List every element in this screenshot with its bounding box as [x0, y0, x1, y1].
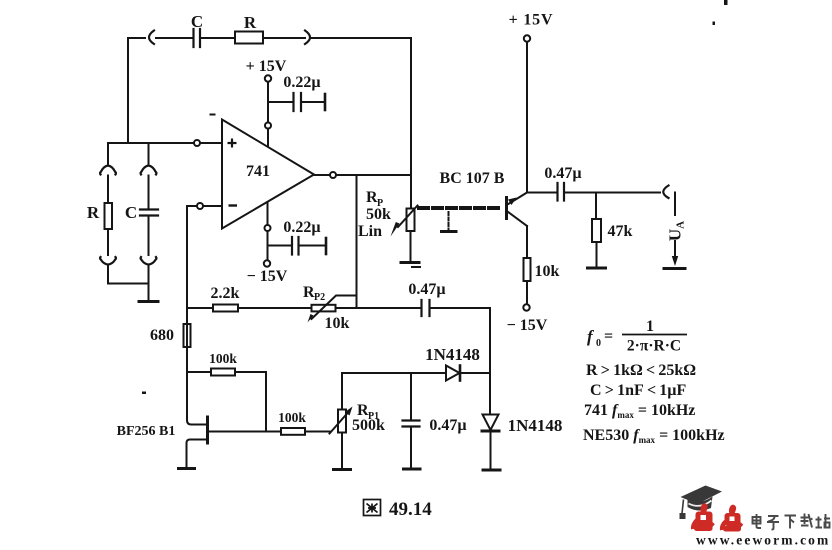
watermark graduation cap — [680, 486, 723, 520]
speck near BF256 — [142, 392, 146, 395]
capacitor 0.47u output — [558, 183, 565, 201]
svg-text:10k: 10k — [535, 263, 560, 280]
ground RP — [401, 261, 419, 264]
wire top feedback left segment — [128, 37, 145, 39]
wire — [490, 432, 492, 468]
ground bar top 0.22u — [324, 94, 327, 110]
ground 0.47u vertical — [404, 468, 421, 471]
svg-text:BF256 B1: BF256 B1 — [117, 424, 176, 439]
svg-text:741 fmax = 10kHz: 741 fmax = 10kHz — [584, 402, 695, 420]
wire — [238, 307, 312, 309]
svg-text:500k: 500k — [352, 417, 385, 434]
svg-text:+ 15V: + 15V — [509, 12, 554, 29]
terminal -15V opamp — [264, 260, 270, 266]
wire — [107, 229, 109, 255]
wire — [299, 245, 324, 247]
svg-text:− 15V: − 15V — [247, 268, 288, 285]
capacitor 0.47u vertical — [410, 373, 412, 420]
mechanical link dashed RP to Q1 — [419, 206, 503, 210]
svg-text:1N4148: 1N4148 — [508, 416, 563, 435]
svg-text:R: R — [87, 203, 100, 222]
wire — [302, 101, 323, 103]
wire op-amp output — [314, 174, 411, 176]
wire — [267, 231, 269, 260]
wire 0.22u bottom branch — [268, 245, 291, 247]
wire — [565, 192, 660, 194]
wire collector to +15V — [526, 42, 528, 193]
diode D2 1N4148 vertical — [483, 415, 499, 431]
svg-text:C: C — [125, 203, 137, 222]
capacitor C (top feedback) — [194, 29, 201, 47]
svg-text:100k: 100k — [278, 410, 306, 425]
node on + input — [194, 140, 200, 146]
wire — [201, 37, 235, 39]
potentiometer RP 50k — [407, 209, 415, 232]
transistor Q2 BF256 bar — [206, 417, 209, 443]
speck near opamp — [210, 114, 216, 116]
connector hook C bottom — [141, 257, 157, 265]
wire — [148, 216, 150, 255]
Q1 arrow — [508, 198, 517, 206]
svg-text:www.eeworm.com: www.eeworm.com — [696, 533, 830, 546]
wire — [460, 372, 490, 374]
resistor 2.2k — [213, 305, 238, 312]
watermark red worm character 2 — [722, 505, 742, 532]
svg-text:− 15V: − 15V — [507, 317, 548, 334]
svg-text:0: 0 — [596, 338, 601, 349]
wire — [108, 265, 149, 284]
wire V+ — [267, 82, 269, 146]
terminal -15V Q1 — [523, 304, 529, 310]
ground source — [179, 467, 195, 470]
wire feedback right vertical — [410, 38, 412, 209]
wire inverting input — [187, 205, 222, 207]
connector hook R bottom — [100, 257, 116, 265]
terminal +15V opamp — [265, 75, 271, 81]
wire — [311, 37, 411, 39]
svg-text:C: C — [191, 12, 203, 31]
ground 47k — [588, 267, 606, 270]
svg-text:680: 680 — [150, 327, 174, 344]
wire 100k upper row — [187, 371, 211, 373]
label - input — [229, 204, 238, 206]
speck top right — [724, 0, 728, 5]
wire R branch top — [107, 143, 109, 165]
resistor R (timing) — [105, 203, 113, 229]
wire — [263, 37, 305, 39]
svg-text:0.22µ: 0.22µ — [283, 74, 320, 91]
ground RC — [139, 300, 158, 303]
ground bar bottom 0.22u — [325, 238, 328, 254]
wire emitter down — [526, 226, 528, 258]
svg-text:R: R — [244, 13, 257, 32]
svg-text:P2: P2 — [314, 292, 325, 303]
Q1 lower lead — [508, 212, 528, 227]
svg-text:49.14: 49.14 — [389, 499, 432, 520]
capacitor 0.47u feedback — [422, 300, 430, 316]
node on V- wire — [265, 225, 271, 231]
connector hook left — [149, 31, 154, 45]
svg-text:100k: 100k — [209, 351, 237, 366]
RP2 wiper arrow — [312, 296, 357, 320]
capacitor C (timing) — [140, 210, 158, 216]
svg-text:741: 741 — [246, 163, 270, 180]
wire — [430, 307, 490, 309]
caption figure number — [364, 500, 381, 516]
transistor Q1 BC107B base bar — [505, 198, 508, 219]
connector hook R top — [100, 166, 116, 175]
potentiometer RP2 10k — [312, 305, 336, 312]
ground D2 — [483, 469, 500, 472]
svg-text:0.47µ: 0.47µ — [544, 165, 581, 182]
UA line bottom with arrow — [674, 241, 676, 257]
svg-text:Lin: Lin — [358, 223, 382, 240]
svg-text:2.2k: 2.2k — [211, 285, 240, 302]
watermark site name glyphs — [753, 514, 831, 530]
wire — [336, 307, 421, 309]
wire — [526, 281, 528, 305]
svg-text:+ 15V: + 15V — [246, 58, 287, 75]
resistor 680 — [184, 324, 191, 347]
shield stub — [448, 212, 450, 229]
terminal +15V Q1 — [524, 35, 530, 41]
svg-text:0.47µ: 0.47µ — [429, 417, 466, 434]
capacitor 0.22u bottom — [292, 237, 299, 255]
svg-text:50k: 50k — [366, 206, 391, 223]
svg-text:R > 1kΩ < 25kΩ: R > 1kΩ < 25kΩ — [586, 362, 696, 379]
node inverting input — [197, 203, 203, 209]
svg-text:1N4148: 1N4148 — [425, 345, 480, 364]
wire 2.2k row — [187, 307, 213, 309]
wire below RP — [410, 231, 412, 261]
shield ground bar — [442, 230, 457, 233]
ground RP1 — [334, 468, 351, 471]
label + input — [228, 139, 237, 148]
wire V- — [267, 202, 269, 225]
svg-text:1: 1 — [646, 318, 654, 335]
Q2 source lead — [187, 440, 208, 467]
potentiometer RP1 500k — [338, 410, 346, 433]
svg-text:2·π·R·C: 2·π·R·C — [627, 338, 681, 355]
resistor 100k lower — [281, 428, 305, 435]
wire inverting node vertical — [187, 206, 206, 425]
svg-text:0.47µ: 0.47µ — [408, 281, 445, 298]
wire C branch top — [148, 143, 150, 165]
wire noninverting input row — [108, 142, 221, 144]
wire output to RP2 vertical — [356, 175, 358, 308]
svg-text:C > 1nF < 1µF: C > 1nF < 1µF — [590, 382, 686, 399]
svg-text:0.22µ: 0.22µ — [283, 219, 320, 236]
connector hook C top — [141, 166, 157, 175]
node on V+ wire — [265, 123, 271, 129]
svg-text:47k: 47k — [608, 223, 633, 240]
ground UA — [664, 267, 685, 270]
svg-text:10k: 10k — [325, 315, 350, 332]
output hook — [663, 186, 668, 199]
wire below RP1 — [341, 433, 343, 468]
op-amp U1 741 — [222, 120, 314, 229]
wire 0.22u top branch — [268, 101, 292, 103]
wire gate row — [208, 431, 281, 433]
resistor 100k upper — [211, 369, 235, 376]
wire — [235, 372, 266, 432]
wire collector to cap — [527, 192, 556, 194]
speck dot — [713, 22, 716, 26]
resistor 10k emitter — [524, 258, 531, 281]
label UA rotated — [666, 221, 687, 241]
wire — [107, 176, 109, 204]
connector hook right — [305, 31, 310, 45]
wire — [148, 176, 150, 210]
svg-text:BC 107 B: BC 107 B — [440, 170, 505, 187]
Q1 upper lead — [508, 193, 528, 205]
capacitor 0.22u top — [294, 93, 302, 111]
wire — [156, 37, 192, 39]
resistor 47k — [595, 193, 597, 220]
wire — [305, 431, 330, 433]
UA line top — [674, 193, 676, 216]
diode D1 1N4148 — [446, 366, 460, 381]
wire RP1 top — [341, 373, 343, 410]
wire diode row — [342, 372, 446, 374]
wire right vertical down — [489, 308, 491, 414]
wire left vertical feedback — [127, 38, 129, 143]
watermark red worm character 1 — [693, 503, 713, 531]
node output — [330, 172, 336, 178]
wire — [148, 265, 150, 301]
RP1 wiper arrow — [330, 413, 349, 434]
svg-text:=: = — [604, 328, 613, 345]
RP wiper arrow — [398, 206, 418, 228]
resistor R (top feedback) — [235, 32, 263, 44]
